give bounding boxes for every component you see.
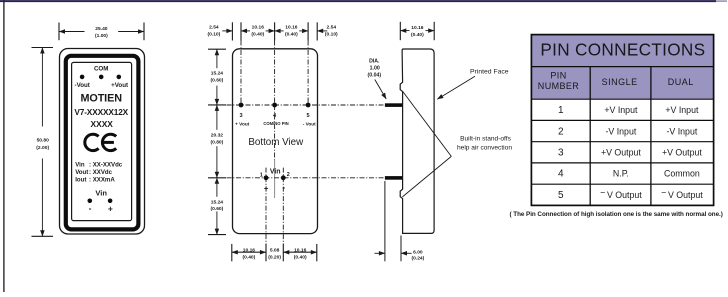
svg-text:-: - bbox=[282, 183, 285, 192]
svg-text:COM/NO PIN: COM/NO PIN bbox=[263, 121, 288, 126]
svg-text:3: 3 bbox=[558, 148, 564, 159]
svg-text:50.80: 50.80 bbox=[37, 137, 50, 143]
svg-text:XXXX: XXXX bbox=[91, 119, 114, 129]
svg-text:− V Output: − V Output bbox=[600, 187, 642, 200]
svg-text:NUMBER: NUMBER bbox=[538, 81, 580, 91]
svg-text:(0.04): (0.04) bbox=[368, 72, 382, 78]
svg-text:: XXXmA: : XXXmA bbox=[89, 177, 115, 184]
svg-text:25.40: 25.40 bbox=[95, 26, 108, 32]
svg-text:+V Input: +V Input bbox=[665, 105, 699, 115]
svg-text:10.16: 10.16 bbox=[294, 247, 307, 253]
svg-text:( The Pin Connection of high i: ( The Pin Connection of high isolation o… bbox=[510, 211, 723, 218]
svg-text:10.16: 10.16 bbox=[252, 25, 265, 31]
svg-text:PIN: PIN bbox=[550, 71, 566, 81]
svg-text:PIN CONNECTIONS: PIN CONNECTIONS bbox=[540, 39, 705, 59]
svg-text:MOTIEN: MOTIEN bbox=[81, 92, 123, 104]
svg-text:(2.00): (2.00) bbox=[36, 145, 49, 151]
svg-text:Iout: Iout bbox=[75, 177, 86, 184]
svg-text:(0.24): (0.24) bbox=[412, 256, 425, 262]
svg-text:SINGLE: SINGLE bbox=[602, 77, 638, 87]
svg-text:2.54: 2.54 bbox=[209, 25, 219, 31]
svg-text:(0.40): (0.40) bbox=[251, 32, 264, 38]
svg-text:(0.60): (0.60) bbox=[211, 206, 224, 212]
svg-text:(0.20): (0.20) bbox=[268, 254, 281, 260]
svg-text:10.16: 10.16 bbox=[285, 25, 298, 31]
svg-text:1: 1 bbox=[558, 105, 564, 116]
svg-text:DUAL: DUAL bbox=[668, 77, 694, 87]
svg-text:+: + bbox=[264, 184, 269, 193]
svg-text:Common: Common bbox=[664, 169, 700, 179]
svg-text:4: 4 bbox=[558, 169, 564, 180]
svg-text:-V Input: -V Input bbox=[666, 126, 697, 136]
svg-text:10.16: 10.16 bbox=[411, 25, 424, 31]
svg-text:1.00: 1.00 bbox=[370, 65, 380, 71]
svg-text:(0.10): (0.10) bbox=[325, 32, 338, 38]
svg-text:(0.40): (0.40) bbox=[285, 32, 298, 38]
svg-text:(0.60): (0.60) bbox=[211, 77, 224, 83]
svg-text:− V Output: − V Output bbox=[661, 187, 703, 200]
svg-text:2.54: 2.54 bbox=[327, 25, 337, 31]
svg-text:5: 5 bbox=[307, 113, 310, 119]
svg-text:N.P.: N.P. bbox=[613, 169, 629, 179]
svg-text:(1.00): (1.00) bbox=[95, 33, 108, 39]
svg-text:COM: COM bbox=[94, 65, 108, 72]
svg-text:+V Output: +V Output bbox=[662, 148, 702, 158]
svg-text:Vin: Vin bbox=[270, 169, 281, 176]
svg-text:Vout: Vout bbox=[75, 169, 88, 176]
svg-text:5.08: 5.08 bbox=[270, 247, 280, 253]
svg-text:Vin: Vin bbox=[95, 188, 107, 197]
svg-text:- Vout: - Vout bbox=[303, 121, 316, 126]
svg-text:DIA.: DIA. bbox=[369, 58, 380, 64]
svg-text:10.16: 10.16 bbox=[243, 247, 256, 253]
svg-text:(0.40): (0.40) bbox=[243, 254, 256, 260]
svg-text:: XXVdc: : XXVdc bbox=[89, 169, 113, 176]
svg-text:Bottom View: Bottom View bbox=[248, 137, 304, 148]
svg-text:1: 1 bbox=[260, 172, 263, 178]
svg-text:: XX-XXVdc: : XX-XXVdc bbox=[89, 161, 123, 168]
svg-text:20.32: 20.32 bbox=[211, 132, 224, 138]
svg-text:-V Input: -V Input bbox=[605, 126, 636, 136]
svg-text:+: + bbox=[108, 203, 113, 213]
svg-text:15.24: 15.24 bbox=[211, 199, 224, 205]
svg-text:15.24: 15.24 bbox=[211, 70, 224, 76]
svg-text:+V Input: +V Input bbox=[604, 105, 638, 115]
svg-text:V7-XXXXX12X: V7-XXXXX12X bbox=[74, 107, 128, 117]
svg-text:(0.10): (0.10) bbox=[208, 32, 221, 38]
svg-text:-Vout: -Vout bbox=[75, 82, 90, 89]
svg-text:2: 2 bbox=[558, 126, 564, 137]
svg-text:-: - bbox=[89, 203, 92, 213]
svg-text:(0.80): (0.80) bbox=[211, 139, 224, 145]
svg-text:help air convection: help air convection bbox=[457, 145, 512, 152]
svg-text:5: 5 bbox=[558, 190, 564, 201]
svg-text:+ Vout: + Vout bbox=[235, 121, 250, 126]
svg-text:Vin: Vin bbox=[75, 161, 85, 168]
svg-text:(0.40): (0.40) bbox=[294, 254, 307, 260]
svg-text:6.00: 6.00 bbox=[413, 249, 423, 255]
svg-text:(0.40): (0.40) bbox=[411, 32, 424, 38]
svg-text:+V Output: +V Output bbox=[601, 148, 641, 158]
svg-text:3: 3 bbox=[239, 113, 242, 119]
svg-text:Built-in stand-offs: Built-in stand-offs bbox=[460, 135, 512, 142]
svg-text:2: 2 bbox=[287, 172, 290, 178]
svg-text:+Vout: +Vout bbox=[111, 82, 128, 89]
svg-text:Printed Face: Printed Face bbox=[470, 69, 509, 76]
